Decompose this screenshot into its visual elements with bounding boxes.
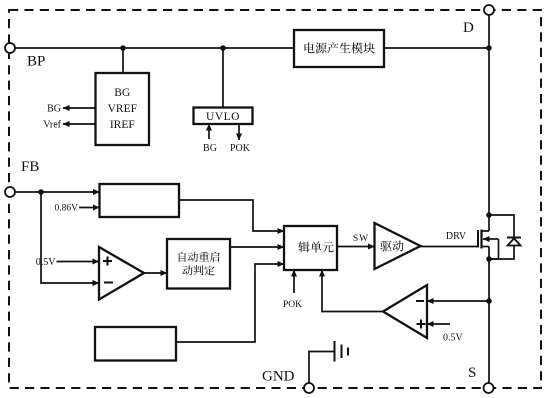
junction FB node [38, 189, 44, 195]
pin BP [5, 43, 15, 53]
svg-text:POK: POK [283, 300, 302, 310]
wire logic SW output to driver [337, 246, 375, 248]
block auto-restart decision 自动重启动判定 [167, 239, 230, 289]
block comparator (unlabeled, 0.86V) [100, 184, 180, 217]
wire comparator A output to auto-restart [144, 272, 167, 274]
svg-text:BG: BG [203, 143, 217, 154]
svg-text:DRV: DRV [446, 231, 467, 242]
0.5V reference to comparator B non-inverting input [427, 323, 450, 325]
svg-text:0.5V: 0.5V [36, 257, 57, 268]
ground symbol (sideways) [334, 341, 336, 362]
wire FB node to comparator A inverting input [41, 192, 99, 283]
wire D rail (drain) [488, 15, 490, 231]
wire bottom block output to logic input 3 [176, 264, 284, 342]
svg-text:BP: BP [27, 54, 45, 70]
svg-text:BG: BG [47, 104, 61, 115]
svg-text:0.5V: 0.5V [443, 333, 464, 344]
wire block output to logic input 1 [179, 200, 284, 231]
wire FB input [15, 191, 100, 193]
diode D1 anode wire [489, 246, 514, 260]
svg-text:0.86V: 0.86V [55, 204, 79, 214]
junction source node [486, 256, 492, 262]
svg-text:S: S [468, 365, 476, 381]
transistor Q1 body arrow and tie to source [483, 238, 499, 240]
transistor Q1 source stub [482, 246, 490, 248]
svg-text:Vref: Vref [43, 120, 61, 131]
svg-text:POK: POK [230, 143, 251, 154]
wire comparator B output to logic bottom input [322, 270, 383, 312]
block U1 BG/VREF/IREF [96, 73, 150, 145]
block (unlabeled, bottom) [95, 327, 176, 361]
BG output arrow (left) [63, 107, 96, 109]
comparator B (current sense, points left) [383, 285, 427, 338]
BG input arrow to UVLO [208, 124, 210, 139]
svg-text:IREF: IREF [110, 119, 135, 131]
diode D1 cathode bar [507, 237, 521, 239]
wire auto-restart output to logic input 2 [230, 246, 284, 248]
comparator A (op-amp triangle) [99, 247, 144, 300]
pin GND [304, 383, 314, 393]
wire source node to comparator B inverting input [427, 300, 489, 302]
block logic unit 辑单元 [284, 226, 337, 270]
pin D [484, 5, 494, 15]
junction to UVLO [220, 45, 226, 51]
block power supply generator 电源产生模块 [294, 30, 384, 67]
wire driver output DRV to gate [421, 246, 479, 248]
Vref output arrow (left) [63, 123, 96, 125]
pin S [484, 383, 494, 393]
svg-text:SW: SW [353, 234, 369, 244]
wire GND pin to ground symbol [309, 352, 335, 384]
driver amp 驱动 [375, 223, 421, 269]
svg-text:GND: GND [262, 369, 295, 385]
POK input arrow to logic [293, 270, 295, 293]
transistor Q1 (power NMOS) gate bar [477, 230, 479, 248]
junction BP rail to D rail [486, 45, 492, 51]
pin FB [5, 187, 15, 197]
junction to BG/VREF/IREF [120, 45, 126, 51]
wire BP rail [15, 47, 489, 49]
junction drain to body diode [486, 212, 492, 218]
block UVLO [194, 108, 253, 125]
wire S rail (source) [488, 247, 490, 384]
svg-text:FB: FB [21, 159, 39, 175]
svg-text:VREF: VREF [108, 103, 137, 115]
transistor Q1 drain stub [482, 230, 490, 232]
svg-text:BG: BG [114, 87, 130, 99]
svg-text:D: D [463, 20, 474, 36]
POK output arrow from UVLO [238, 124, 240, 140]
svg-text:UVLO: UVLO [206, 111, 240, 123]
transistor Q1 channel bar [480, 230, 482, 249]
diode D1 triangle [508, 239, 521, 246]
junction source to comparator B [486, 298, 492, 304]
body diode D1 branch wire [489, 215, 514, 238]
